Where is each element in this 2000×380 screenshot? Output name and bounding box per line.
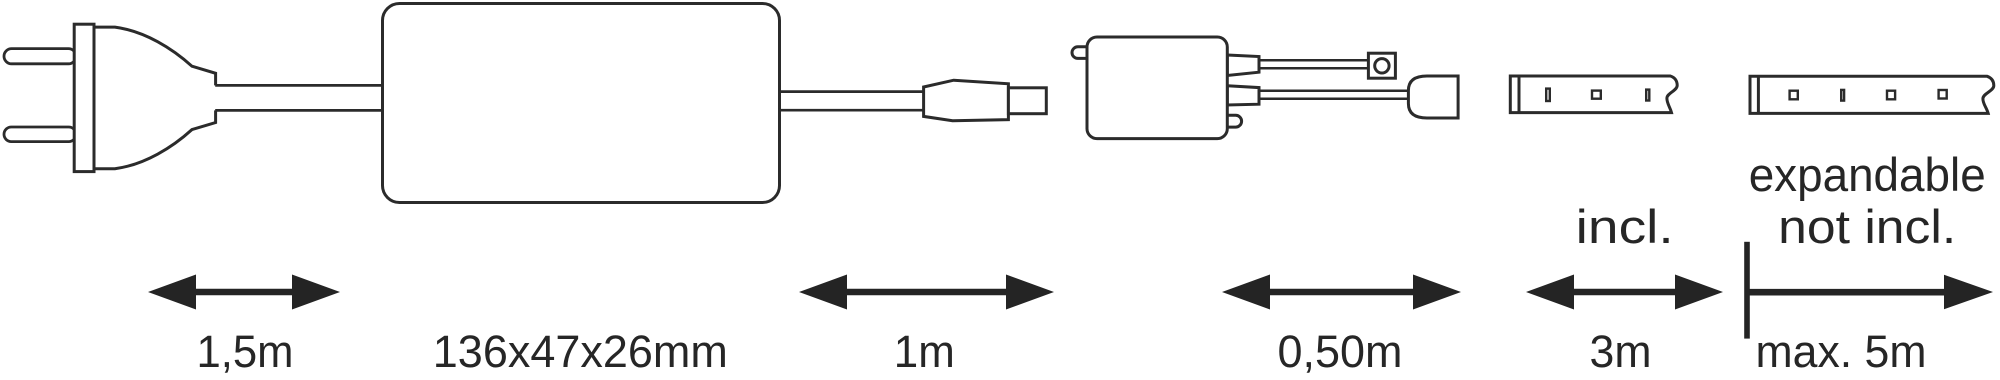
led strip included 3m [1510,76,1677,113]
strip2 led square 2 [1887,91,1895,100]
controller input tab [1072,47,1096,59]
dimension arrow 3m [1526,275,1723,310]
controller output stub lower [1227,86,1259,105]
strip2 led square 3 [1939,90,1947,99]
dimension arrow 1m [799,275,1054,310]
svg-text:incl.: incl. [1576,200,1674,253]
square connector [1368,53,1395,78]
strip1 end seam [1518,76,1521,113]
svg-text:3m: 3m [1590,326,1652,377]
dc cable psu to connector [778,92,924,111]
max 5m arrow [1747,275,1993,310]
strip2 end seam [1757,76,1760,113]
strip2 pad [1841,90,1844,101]
mains cable plug to psu [215,85,383,110]
strip1 pad 2 [1646,90,1649,101]
svg-text:136x47x26mm: 136x47x26mm [433,326,728,377]
controller box [1087,37,1227,139]
wire upper to square connector [1259,60,1370,68]
mains plug pin bottom [4,127,76,142]
controller output stub upper [1227,55,1259,76]
wire lower to end cap [1259,91,1412,99]
svg-text:1,5m: 1,5m [197,326,294,377]
strip2 led square 1 [1790,91,1798,100]
square connector circle [1375,59,1389,73]
mains plug face plate [74,24,94,171]
strip1 pad 1 [1546,89,1550,101]
max 5m start bar [1744,242,1750,339]
dimension arrow 1,5m [148,275,340,310]
svg-text:0,50m: 0,50m [1278,326,1403,377]
svg-text:expandable: expandable [1749,148,1986,201]
dc connector tip [1008,88,1046,114]
dimension arrow 0,50m [1222,275,1461,310]
controller bottom tab [1220,115,1242,127]
mains plug body [93,27,216,169]
dc connector body [924,80,1009,121]
strip1 led square [1592,91,1601,99]
led strip expandable max 5m [1750,76,1994,113]
svg-text:1m: 1m [894,326,955,377]
power supply unit 136x47x26mm [383,4,780,203]
mains plug pin top [4,49,76,64]
svg-text:max. 5m: max. 5m [1756,326,1927,377]
end cap connector [1408,76,1458,118]
svg-text:not incl.: not incl. [1778,200,1956,253]
